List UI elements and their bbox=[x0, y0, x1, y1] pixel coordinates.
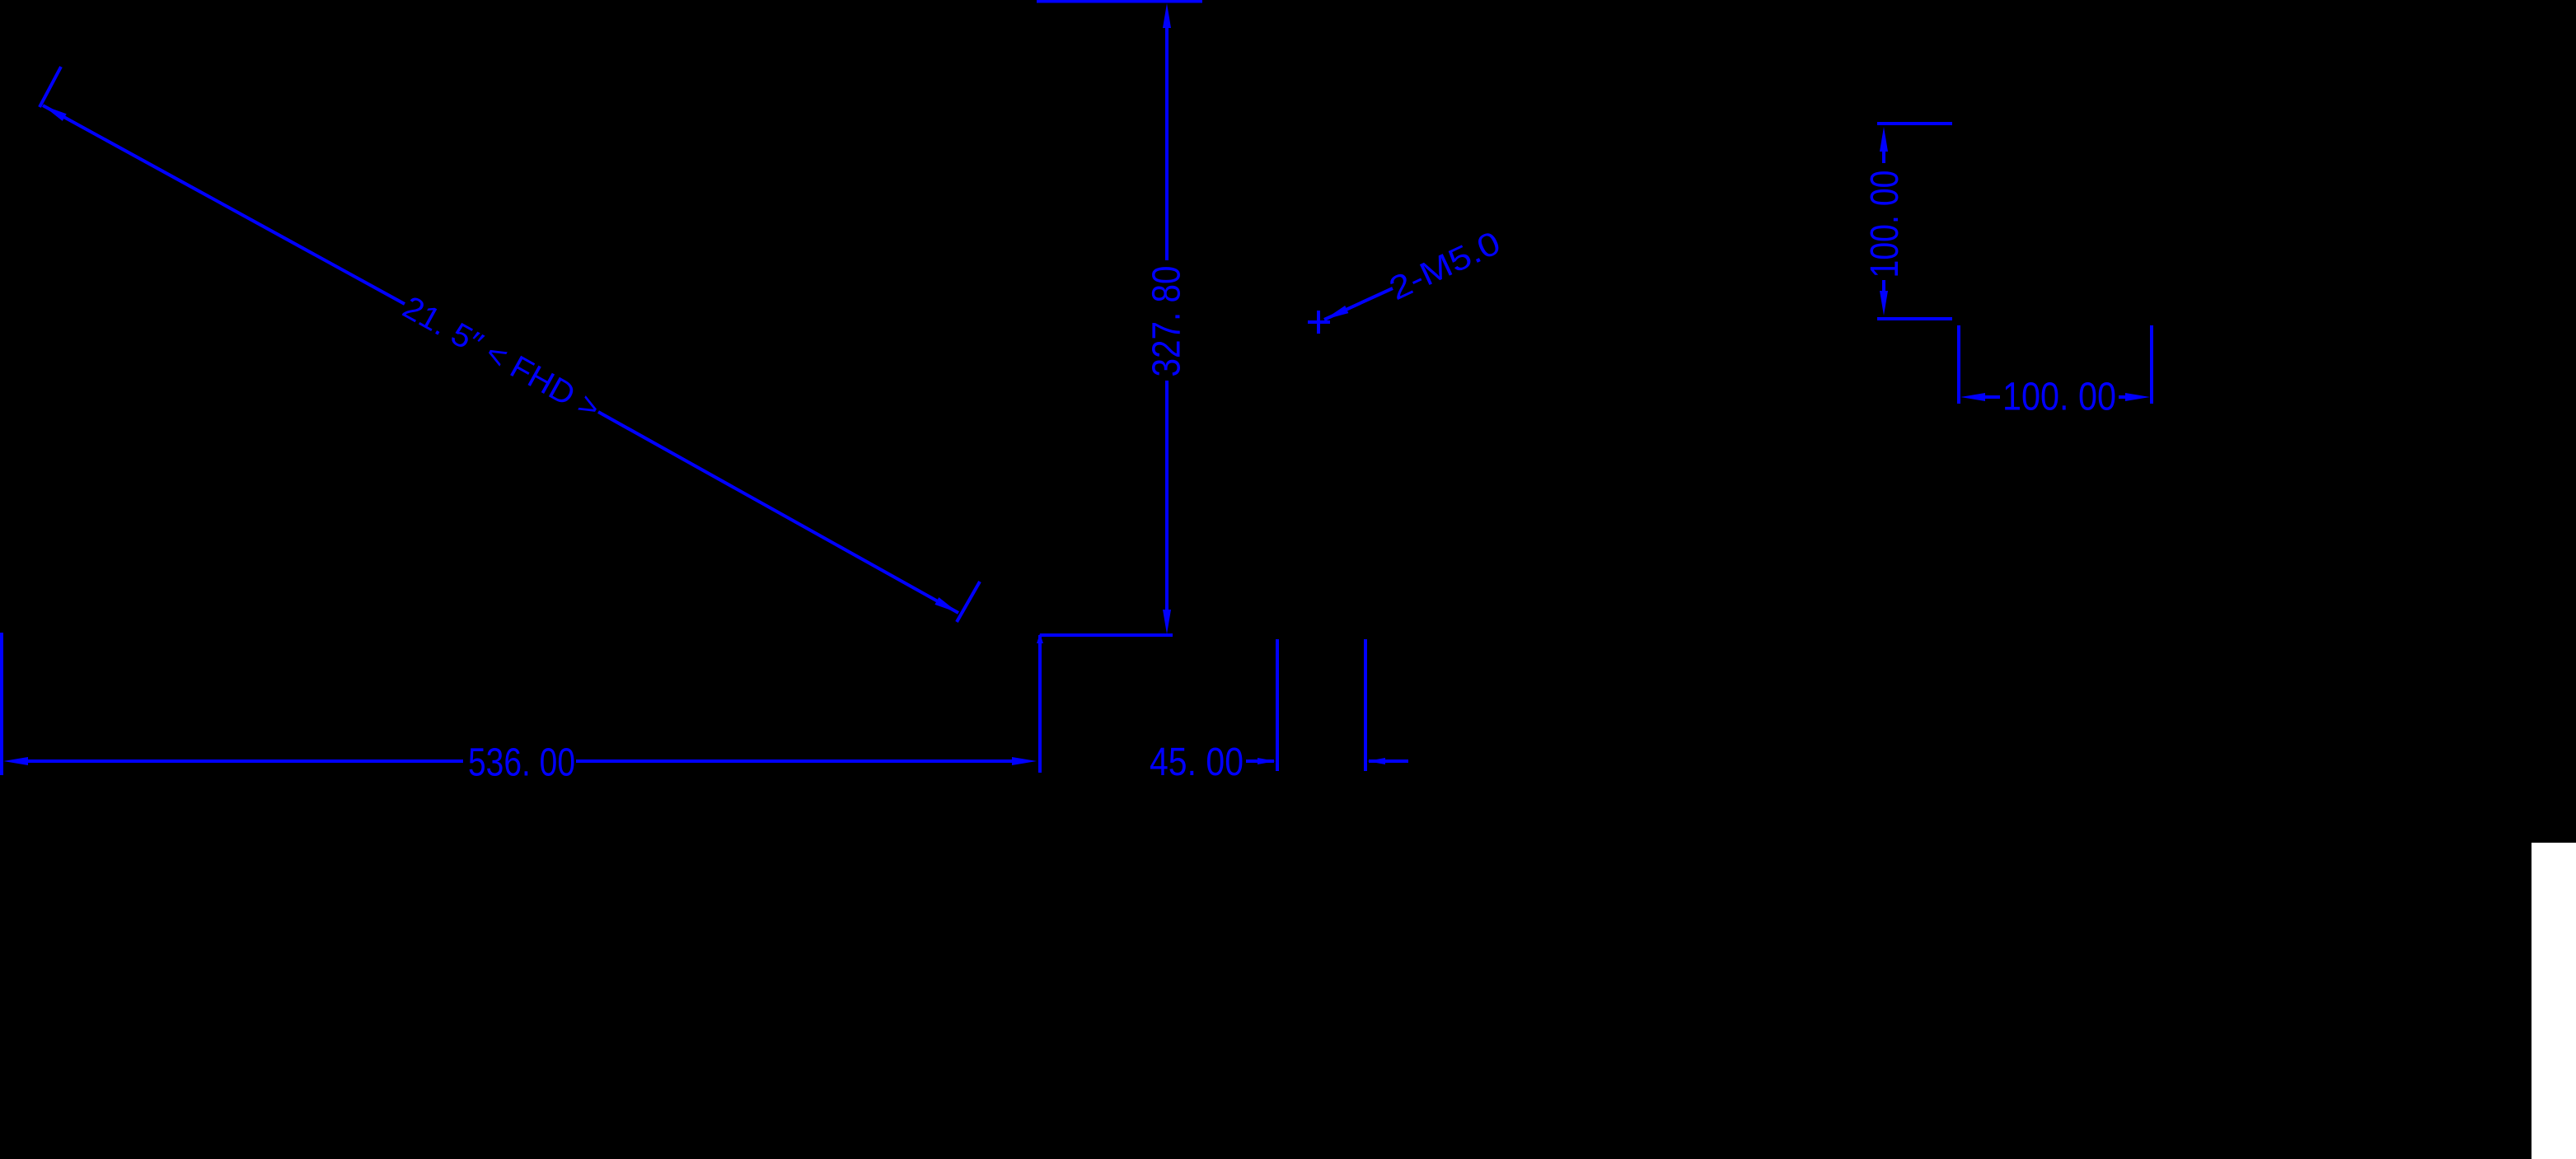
top extension line (front view top edge) bbox=[1037, 0, 1202, 3]
diagonal dimension: arrowhead upper-left bbox=[43, 105, 67, 121]
VESA horizontal: dim line right segment bbox=[2119, 395, 2131, 399]
diagonal dimension: tick at lower-right end bbox=[957, 582, 980, 622]
VESA vertical: top arrowhead bbox=[1880, 127, 1888, 152]
VESA horizontal 100.00: left extension line bbox=[1957, 325, 1960, 404]
327.80 dimension line upper part bbox=[1165, 25, 1169, 260]
svg-text:536. 00: 536. 00 bbox=[468, 741, 575, 785]
2-M5.0 leader line bbox=[1324, 288, 1393, 320]
small up arrow at corner of 536 right extension line bbox=[1037, 633, 1043, 643]
svg-text:100. 00: 100. 00 bbox=[2002, 376, 2116, 419]
white rectangle bottom right bbox=[2532, 843, 2576, 1159]
svg-text:100. 00: 100. 00 bbox=[1863, 171, 1907, 278]
VESA vertical: bottom extension line bbox=[1877, 317, 1952, 320]
VESA vertical: bottom arrowhead bbox=[1880, 291, 1888, 315]
536.00 dimension: left extension line bbox=[0, 633, 3, 775]
327.80 dimension line lower part bbox=[1165, 381, 1169, 611]
45.00: left leader + arrowhead pointing right bbox=[1246, 759, 1274, 763]
VESA horizontal: dim line left segment bbox=[1982, 395, 2000, 399]
327.80 bottom arrowhead bbox=[1163, 610, 1171, 634]
2-M5.0 leader: arrowhead at cross bbox=[1324, 306, 1348, 320]
VESA horizontal: right arrowhead pointing right bbox=[2125, 393, 2150, 401]
536.00: dim line right segment bbox=[576, 759, 1012, 763]
VESA vertical: dim line upper part bbox=[1882, 148, 1885, 163]
536.00: left arrowhead bbox=[3, 757, 28, 765]
536.00: dim line left segment bbox=[25, 759, 463, 763]
VESA vertical: dim line lower part bbox=[1882, 280, 1885, 295]
VESA horizontal: right extension line bbox=[2150, 325, 2153, 404]
svg-text:327. 80: 327. 80 bbox=[1145, 266, 1189, 377]
536.00: right arrowhead bbox=[1012, 757, 1037, 765]
svg-text:45. 00: 45. 00 bbox=[1150, 741, 1244, 784]
diagonal dimension: arrowhead lower-right bbox=[934, 597, 958, 613]
327.80 vertical dimension: top arrowhead bbox=[1163, 3, 1171, 28]
diagonal dimension: line segment 2 bbox=[598, 412, 958, 613]
VESA vertical 100.00: top extension line bbox=[1877, 122, 1952, 125]
VESA horizontal: left arrowhead pointing left bbox=[1960, 393, 1985, 401]
diagonal dimension 21.5" FHD : tick at upper-left end bbox=[40, 67, 61, 107]
2-M5.0 leader: cross marker bbox=[1308, 320, 1330, 324]
45.00 dimension: left extension line (side view front face) bbox=[1276, 639, 1279, 771]
45.00: right arrowhead pointing left with tail bbox=[1367, 758, 1385, 764]
bottom extension line (front view bottom edge, L corner) bbox=[1040, 633, 1173, 637]
diagonal dimension: line segment 1 bbox=[43, 105, 405, 304]
45.00: right extension line (side view back face) bbox=[1364, 639, 1367, 771]
536.00: right extension line bbox=[1038, 635, 1042, 773]
